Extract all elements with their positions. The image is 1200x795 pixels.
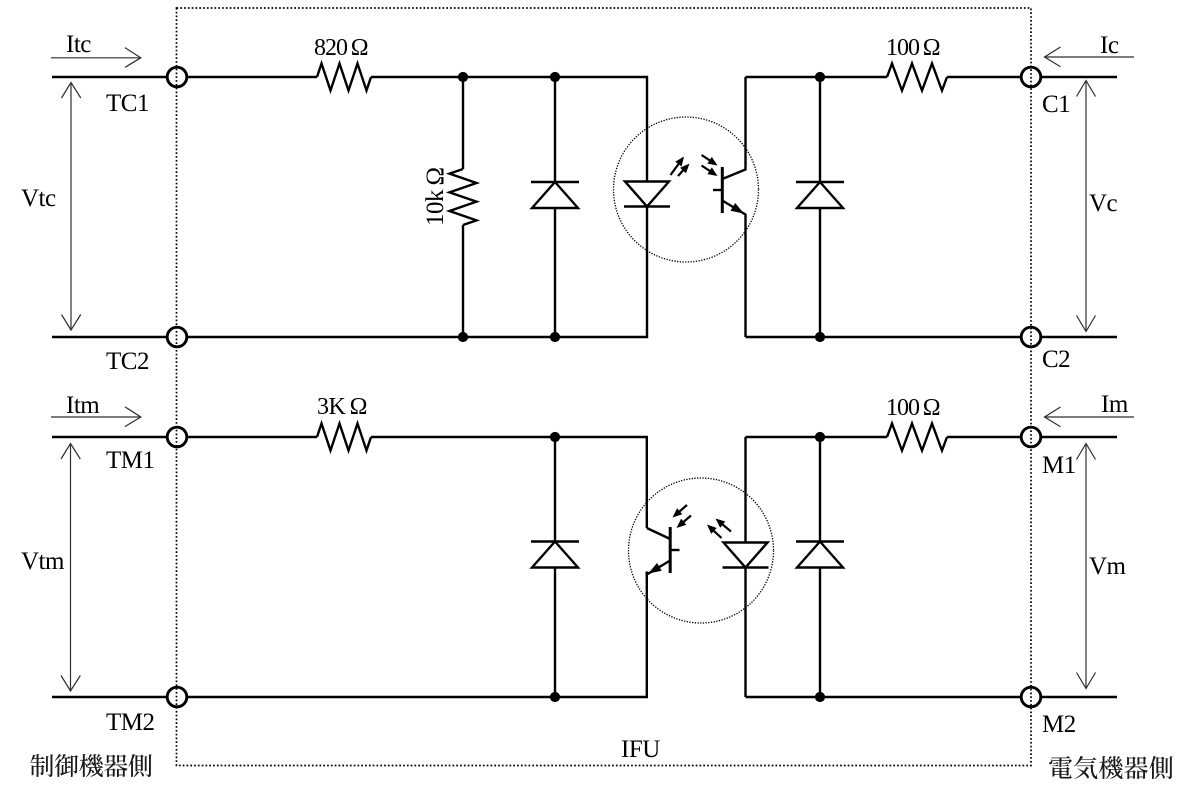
wire: left lead into TM1 <box>52 436 167 438</box>
wire: LED U2 anode from M1 rail <box>744 437 746 543</box>
wire: R1 to LED branch corner, down to LED anode <box>371 77 647 182</box>
resistor R5 100ohm zigzag (bottom) <box>887 424 947 451</box>
junction node E2 (D4 bottom) <box>815 692 825 702</box>
wire: R4 to Q2 collector corner <box>371 437 647 528</box>
wire: R5 to terminal M1 <box>947 436 1021 438</box>
terminal M1 <box>1021 427 1041 447</box>
wire: M2 rail to terminal M2 <box>746 696 1022 698</box>
light arrow from LED U2 (b) <box>716 519 732 532</box>
svg-text:100 Ω: 100 Ω <box>886 395 940 421</box>
light arrow from LED U1 (a) <box>671 157 685 176</box>
wire: left lead into TC2 <box>52 336 167 338</box>
wire: node D down to diode D3 <box>554 437 556 542</box>
wire: node C down to diode D2 <box>819 77 821 182</box>
svg-text:Itm: Itm <box>66 392 100 419</box>
svg-text:TM2: TM2 <box>106 709 155 736</box>
wire: right lead out of C1 <box>1041 76 1117 78</box>
junction node E (D4 top) <box>815 432 825 442</box>
wire: left lead into TC1 (top) <box>52 76 167 78</box>
light arrow into Q1 base (a) <box>702 155 718 166</box>
optocoupler U2 dotted package circle <box>629 478 774 623</box>
svg-text:TC1: TC1 <box>106 90 149 117</box>
current arrow Im <box>1045 416 1135 418</box>
wire: left lead into TM2 <box>52 696 167 698</box>
svg-text:100 Ω: 100 Ω <box>886 35 940 61</box>
terminal TM1 <box>167 427 187 447</box>
wire: right lead out of C2 <box>1041 336 1117 338</box>
resistor R1 820ohm zigzag <box>317 64 371 91</box>
wire: Q1 collector rail to resistor R3 <box>746 76 888 78</box>
voltage arrow Vtm (double headed) <box>61 444 80 692</box>
svg-text:Im: Im <box>1101 391 1129 418</box>
svg-text:Vm: Vm <box>1089 553 1127 580</box>
wire: TC2 rail from terminal to LED cathode corner <box>187 207 647 338</box>
svg-text:C2: C2 <box>1042 346 1070 373</box>
voltage arrow Vm (double headed) <box>1077 444 1096 689</box>
svg-text:TM1: TM1 <box>106 447 155 474</box>
diode D2 <box>796 182 844 208</box>
current arrow Itc <box>51 57 141 59</box>
svg-text:C1: C1 <box>1042 91 1070 118</box>
phototransistor Q1 of optocoupler U1 <box>713 77 746 337</box>
label control-equipment side (kanji) <box>30 754 152 777</box>
light arrow from LED U2 (a) <box>707 525 722 539</box>
wire: C2 rail (emitter rail to terminal C2) <box>746 336 1022 338</box>
diode D3 <box>531 542 579 568</box>
wire: TM1 to resistor 3K <box>187 436 317 438</box>
wire: LED U2 cathode to M2 rail <box>744 568 746 698</box>
current arrow Ic <box>1045 56 1135 58</box>
svg-text:Vtc: Vtc <box>21 185 56 212</box>
optocoupler U1 dotted package circle <box>614 117 759 262</box>
light arrow into Q2 base (b) <box>677 516 692 529</box>
terminal TM2 <box>167 687 187 707</box>
svg-text:M1: M1 <box>1042 452 1076 479</box>
junction node A2 (10k bottom) <box>458 332 468 342</box>
light arrow from LED U1 (b) <box>678 164 690 177</box>
svg-text:Ic: Ic <box>1100 32 1119 59</box>
phototransistor Q2 of optocoupler U2 <box>647 527 680 575</box>
svg-text:Vc: Vc <box>1089 190 1118 217</box>
wire: TM2 rail from terminal to Q2 emitter corner <box>187 572 647 698</box>
svg-text:Itc: Itc <box>66 31 91 58</box>
wire: TC1 to resistor 820 <box>187 76 317 78</box>
junction node C2 (D2 bottom) <box>815 332 825 342</box>
voltage arrow Vtc (double headed) <box>62 83 81 331</box>
junction node B (D1 top) <box>550 72 560 82</box>
svg-text:TC2: TC2 <box>106 348 149 375</box>
light arrow into Q1 base (b) <box>702 166 718 177</box>
svg-text:10k Ω: 10k Ω <box>422 167 449 226</box>
wire: node B down to diode D1 <box>554 77 556 182</box>
label electric-equipment side (kanji) <box>1049 756 1173 779</box>
junction node C (D2 top) <box>815 72 825 82</box>
diode D4 <box>796 542 844 568</box>
resistor R3 100ohm zigzag (top) <box>887 64 947 91</box>
svg-text:IFU: IFU <box>621 736 660 763</box>
LED D6 (optocoupler U2 emitter) <box>723 543 769 568</box>
wire: right lead out of M2 <box>1041 696 1117 698</box>
LED D5 (optocoupler U1 emitter) <box>624 182 670 207</box>
terminal M2 <box>1021 687 1041 707</box>
diode D1 <box>531 182 579 208</box>
wire: node A down to 10k resistor <box>462 77 464 169</box>
wire: D4 anode to M2 rail <box>819 568 821 698</box>
terminal C2 <box>1021 327 1041 347</box>
wire: M1 rail to resistor R5 <box>746 436 888 438</box>
junction node B2 (D1 bottom) <box>550 332 560 342</box>
light arrow into Q2 base (a) <box>673 505 688 518</box>
wire: R2 bottom to TC2 rail <box>462 225 464 337</box>
resistor R4 3Kohm zigzag <box>317 424 371 451</box>
wire: D2 anode to C2 rail <box>819 208 821 337</box>
current arrow Itm <box>51 416 141 418</box>
voltage arrow Vc (double headed) <box>1077 81 1096 332</box>
svg-text:3K Ω: 3K Ω <box>317 394 367 420</box>
terminal C1 <box>1021 67 1041 87</box>
terminal TC2 <box>167 327 187 347</box>
svg-text:820 Ω: 820 Ω <box>314 35 368 61</box>
resistor R2 10kohm vertical zigzag <box>450 169 477 225</box>
wire: R3 to terminal C1 <box>947 76 1021 78</box>
wire: D1 anode to TC2 rail <box>554 208 556 337</box>
wire: D3 anode to TM2 rail <box>554 568 556 698</box>
svg-text:Vtm: Vtm <box>21 548 65 575</box>
svg-text:M2: M2 <box>1042 711 1076 738</box>
wire: node E down to diode D4 <box>819 437 821 542</box>
junction node A (820/10k, top rail) <box>458 72 468 82</box>
junction node D (D3 top) <box>550 432 560 442</box>
IFU boundary dotted rectangle <box>177 8 1032 766</box>
wire: right lead out of M1 <box>1041 436 1117 438</box>
terminal TC1 <box>167 67 187 87</box>
junction node D2 (D3 bottom) <box>550 692 560 702</box>
